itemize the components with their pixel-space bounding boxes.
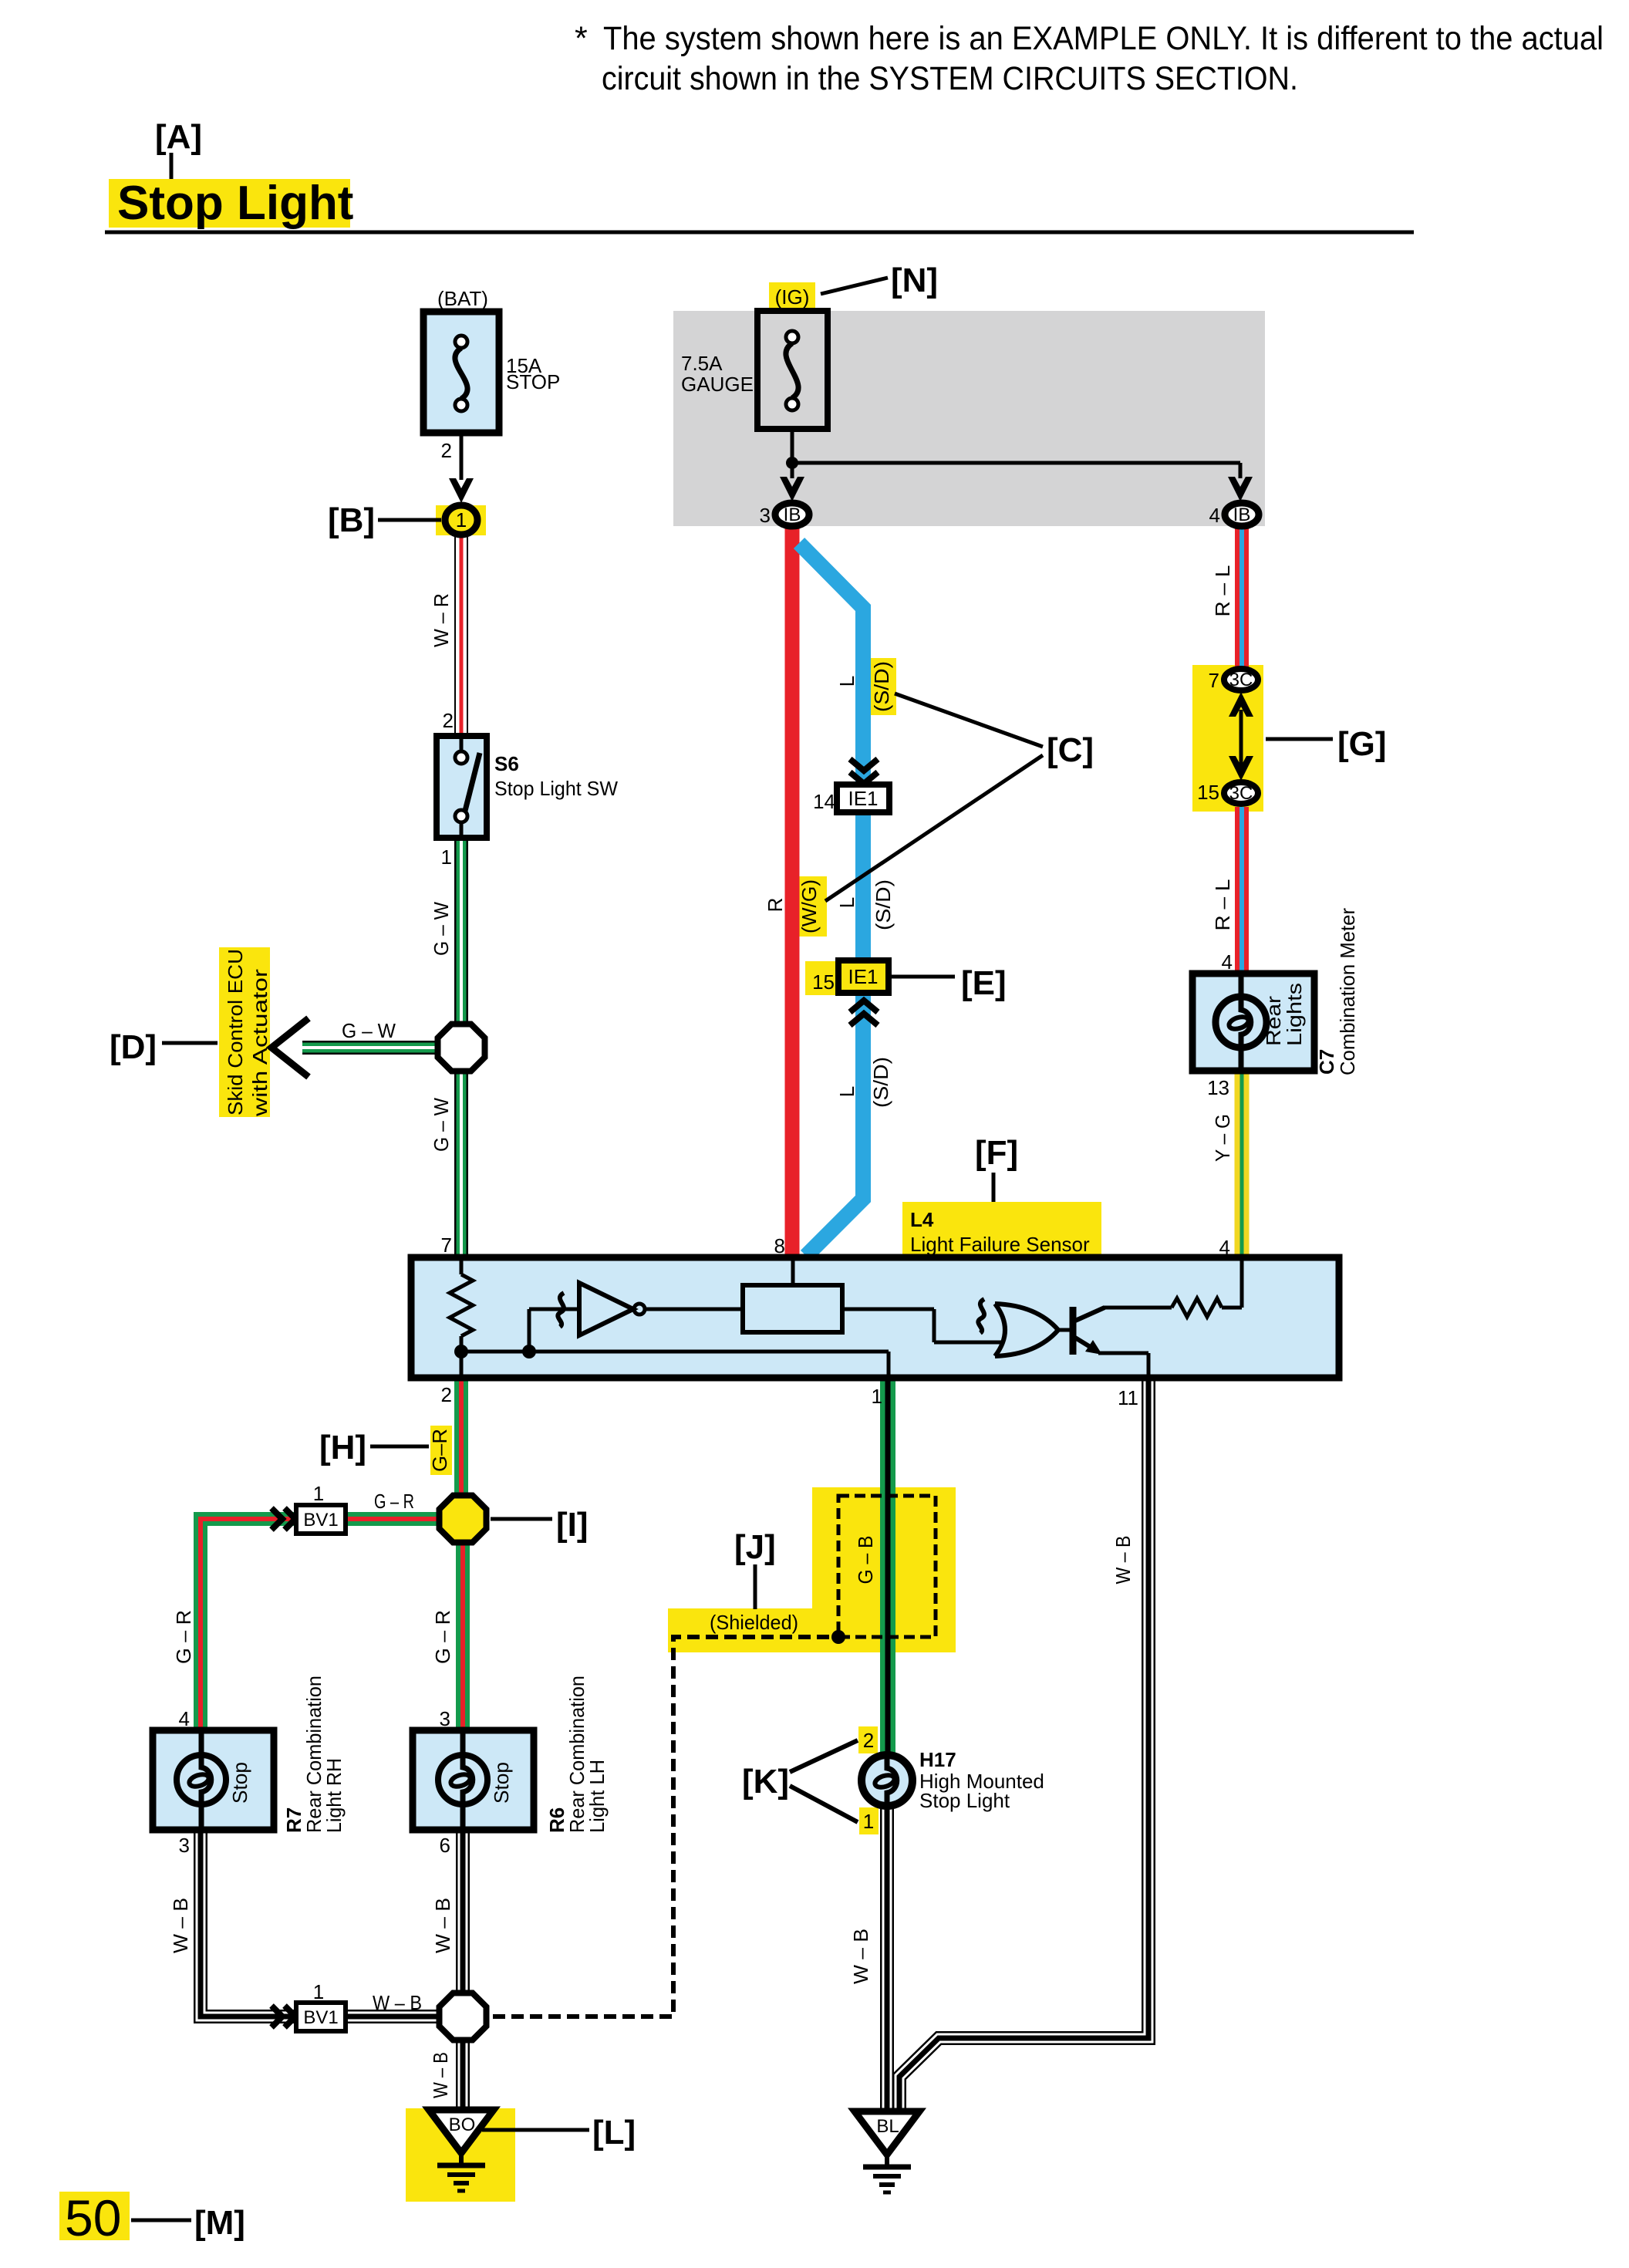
svg-text:W – B: W – B — [431, 1898, 454, 1953]
svg-text:L: L — [835, 676, 858, 687]
svg-text:W – R: W – R — [430, 593, 453, 647]
svg-text:4: 4 — [1222, 950, 1233, 974]
svg-text:[D]: [D] — [110, 1028, 157, 1066]
svg-text:S6: S6 — [494, 752, 519, 775]
svg-text:[C]: [C] — [1047, 731, 1094, 769]
svg-text:G – B: G – B — [854, 1536, 877, 1585]
svg-text:G – W: G – W — [342, 1019, 396, 1042]
svg-text:Stop: Stop — [228, 1762, 251, 1804]
svg-text:BO: BO — [449, 2114, 476, 2135]
svg-text:50: 50 — [65, 2189, 121, 2246]
svg-text:[M]: [M] — [194, 2204, 245, 2242]
svg-text:G – R: G – R — [431, 1610, 454, 1664]
svg-text:1: 1 — [863, 1810, 874, 1833]
svg-text:[G]: [G] — [1337, 725, 1387, 763]
svg-text:IE1: IE1 — [848, 787, 878, 810]
svg-text:[B]: [B] — [328, 501, 375, 539]
svg-text:W – B: W – B — [169, 1898, 192, 1953]
svg-text:Stop Light: Stop Light — [919, 1789, 1010, 1812]
svg-text:14: 14 — [813, 790, 835, 813]
svg-text:15: 15 — [812, 970, 835, 994]
svg-text:4: 4 — [179, 1707, 190, 1730]
svg-text:[H]: [H] — [319, 1429, 366, 1466]
svg-text:1: 1 — [441, 845, 452, 869]
svg-text:Stop Light: Stop Light — [117, 177, 353, 230]
svg-text:W – B: W – B — [849, 1929, 872, 1984]
svg-text:L4: L4 — [910, 1208, 934, 1231]
svg-text:STOP: STOP — [506, 370, 560, 393]
svg-text:[A]: [A] — [155, 118, 202, 156]
svg-text:IB: IB — [1233, 505, 1251, 525]
svg-text:BL: BL — [876, 2116, 899, 2137]
svg-text:Stop Light SW: Stop Light SW — [494, 777, 618, 800]
svg-text:IB: IB — [784, 505, 801, 525]
svg-text:GAUGE: GAUGE — [681, 373, 754, 396]
svg-text:[F]: [F] — [975, 1134, 1018, 1172]
svg-text:Y – G: Y – G — [1211, 1114, 1234, 1162]
svg-text:6: 6 — [440, 1834, 450, 1857]
svg-text:[E]: [E] — [961, 964, 1007, 1002]
svg-text:[I]: [I] — [556, 1506, 589, 1544]
svg-text:H17: H17 — [919, 1748, 956, 1771]
svg-text:Light Failure Sensor: Light Failure Sensor — [910, 1233, 1090, 1256]
svg-text:Light LH: Light LH — [585, 1760, 609, 1833]
svg-text:(S/D): (S/D) — [870, 661, 893, 712]
svg-text:G – R: G – R — [374, 1490, 414, 1513]
svg-text:8: 8 — [774, 1234, 785, 1257]
svg-text:L: L — [835, 1086, 858, 1097]
svg-text:(Shielded): (Shielded) — [710, 1611, 798, 1634]
svg-text:3: 3 — [760, 504, 771, 527]
svg-text:(S/D): (S/D) — [872, 879, 895, 930]
svg-text:Lights: Lights — [1283, 983, 1306, 1046]
svg-text:Stop: Stop — [490, 1762, 513, 1804]
svg-text:4: 4 — [1209, 504, 1220, 527]
svg-text:circuit shown in the SYSTEM CI: circuit shown in the SYSTEM CIRCUITS SEC… — [602, 60, 1298, 97]
svg-text:7: 7 — [441, 1234, 452, 1257]
svg-text:7.5A: 7.5A — [681, 352, 723, 375]
svg-text:IE1: IE1 — [848, 965, 878, 988]
svg-text:G – R: G – R — [172, 1610, 195, 1664]
svg-text:[J]: [J] — [734, 1528, 776, 1566]
svg-text:R: R — [764, 898, 787, 913]
svg-text:Light RH: Light RH — [322, 1758, 346, 1833]
svg-text:1: 1 — [456, 508, 467, 532]
svg-text:Skid Control ECU: Skid Control ECU — [224, 949, 247, 1115]
svg-text:BV1: BV1 — [303, 1510, 338, 1531]
svg-text:[K]: [K] — [742, 1763, 789, 1801]
svg-text:3C: 3C — [1229, 783, 1253, 804]
svg-text:[N]: [N] — [891, 262, 938, 299]
svg-text:W – B: W – B — [429, 2052, 452, 2098]
svg-text:The system shown here is an EX: The system shown here is an EXAMPLE ONLY… — [603, 20, 1604, 57]
svg-text:2: 2 — [441, 1383, 452, 1406]
svg-text:2: 2 — [441, 439, 452, 462]
svg-text:(W/G): (W/G) — [798, 879, 821, 933]
svg-text:3: 3 — [179, 1834, 190, 1857]
svg-text:15: 15 — [1197, 781, 1219, 804]
svg-text:W – B: W – B — [373, 1991, 422, 2014]
svg-text:[L]: [L] — [592, 2114, 636, 2152]
svg-text:13: 13 — [1207, 1076, 1229, 1099]
svg-text:1: 1 — [872, 1385, 882, 1408]
svg-text:11: 11 — [1118, 1386, 1138, 1409]
svg-text:2: 2 — [863, 1729, 874, 1752]
svg-text:Rear: Rear — [1262, 996, 1285, 1046]
svg-text:(IG): (IG) — [775, 285, 810, 309]
svg-text:(BAT): (BAT) — [437, 287, 488, 310]
svg-text:Combination Meter: Combination Meter — [1336, 908, 1359, 1075]
svg-text:3: 3 — [440, 1707, 450, 1730]
svg-text:R – L: R – L — [1211, 565, 1234, 617]
svg-text:C7: C7 — [1315, 1049, 1338, 1075]
svg-text:BV1: BV1 — [303, 2007, 338, 2028]
svg-text:G – W: G – W — [430, 1098, 453, 1152]
svg-text:*: * — [575, 20, 588, 57]
svg-text:with Actuator: with Actuator — [248, 969, 271, 1118]
svg-text:G–R: G–R — [428, 1429, 451, 1472]
svg-text:G – W: G – W — [430, 902, 453, 956]
svg-text:3C: 3C — [1229, 670, 1253, 690]
svg-text:1: 1 — [313, 1980, 324, 2003]
svg-text:R – L: R – L — [1211, 879, 1234, 931]
svg-text:2: 2 — [443, 709, 454, 732]
svg-text:7: 7 — [1209, 669, 1219, 692]
svg-text:L: L — [835, 897, 858, 908]
svg-text:W – B: W – B — [1111, 1536, 1135, 1585]
svg-text:1: 1 — [313, 1482, 324, 1505]
svg-text:(S/D): (S/D) — [869, 1057, 892, 1108]
svg-text:4: 4 — [1219, 1236, 1230, 1259]
